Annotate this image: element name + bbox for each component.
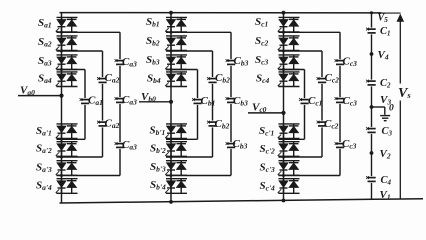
svg-text:Sa2: Sa2 xyxy=(38,36,52,49)
svg-text:Vc0: Vc0 xyxy=(252,102,267,115)
svg-text:Sa'4: Sa'4 xyxy=(36,180,52,193)
svg-text:V4: V4 xyxy=(378,49,389,62)
svg-text:Ca3: Ca3 xyxy=(122,94,137,107)
svg-text:Sc'1: Sc'1 xyxy=(259,125,274,138)
svg-text:Sc'3: Sc'3 xyxy=(260,162,276,175)
svg-text:Vs: Vs xyxy=(398,86,411,101)
svg-text:Cb2: Cb2 xyxy=(215,118,230,131)
svg-text:Sb'4: Sb'4 xyxy=(150,179,166,192)
svg-text:Sa3: Sa3 xyxy=(38,55,52,68)
svg-text:Sb4: Sb4 xyxy=(147,73,161,86)
svg-text:Sb2: Sb2 xyxy=(146,35,160,48)
svg-text:Cb3: Cb3 xyxy=(234,55,249,68)
svg-text:Sa1: Sa1 xyxy=(38,17,52,30)
svg-text:Cc3: Cc3 xyxy=(342,138,357,151)
svg-text:Cb3: Cb3 xyxy=(233,138,248,151)
svg-text:Cb3: Cb3 xyxy=(233,95,248,108)
svg-text:Ca1: Ca1 xyxy=(88,95,103,108)
svg-text:Sb'2: Sb'2 xyxy=(150,143,166,156)
svg-text:Ca2: Ca2 xyxy=(105,118,120,131)
svg-text:Ca3: Ca3 xyxy=(122,56,137,69)
svg-text:Sb3: Sb3 xyxy=(146,54,160,67)
svg-text:Sb'1: Sb'1 xyxy=(150,125,166,138)
svg-text:Sc4: Sc4 xyxy=(256,73,269,86)
svg-text:Sc'2: Sc'2 xyxy=(260,143,276,156)
svg-text:Cc3: Cc3 xyxy=(343,95,358,108)
svg-text:0: 0 xyxy=(389,104,394,114)
svg-text:C2: C2 xyxy=(380,78,391,90)
svg-text:Sa'2: Sa'2 xyxy=(36,143,52,156)
svg-text:Sa'3: Sa'3 xyxy=(36,162,52,175)
svg-text:Cc3: Cc3 xyxy=(343,56,358,69)
svg-text:Sc'4: Sc'4 xyxy=(260,180,276,193)
svg-text:C1: C1 xyxy=(380,26,391,38)
svg-text:Cc2: Cc2 xyxy=(324,118,339,131)
svg-text:C3: C3 xyxy=(382,126,393,138)
svg-text:Va0: Va0 xyxy=(20,85,35,98)
svg-text:Ca2: Ca2 xyxy=(105,72,120,85)
svg-text:Ca3: Ca3 xyxy=(122,139,137,152)
svg-text:Cc1: Cc1 xyxy=(308,95,322,108)
svg-text:C4: C4 xyxy=(381,175,392,187)
svg-text:Sc2: Sc2 xyxy=(255,35,268,48)
svg-text:Sc1: Sc1 xyxy=(255,16,268,29)
svg-text:Vb0: Vb0 xyxy=(141,91,156,104)
svg-text:V5: V5 xyxy=(378,13,389,25)
svg-text:V1: V1 xyxy=(380,189,391,202)
svg-text:Sb'3: Sb'3 xyxy=(150,161,166,174)
svg-text:Sb1: Sb1 xyxy=(146,16,160,29)
svg-text:Cb2: Cb2 xyxy=(215,72,230,85)
svg-text:Sa4: Sa4 xyxy=(38,73,52,86)
svg-text:Sc3: Sc3 xyxy=(255,54,268,67)
svg-text:Cc2: Cc2 xyxy=(325,72,340,85)
svg-text:V2: V2 xyxy=(380,148,391,161)
svg-text:Sa'1: Sa'1 xyxy=(36,125,52,138)
